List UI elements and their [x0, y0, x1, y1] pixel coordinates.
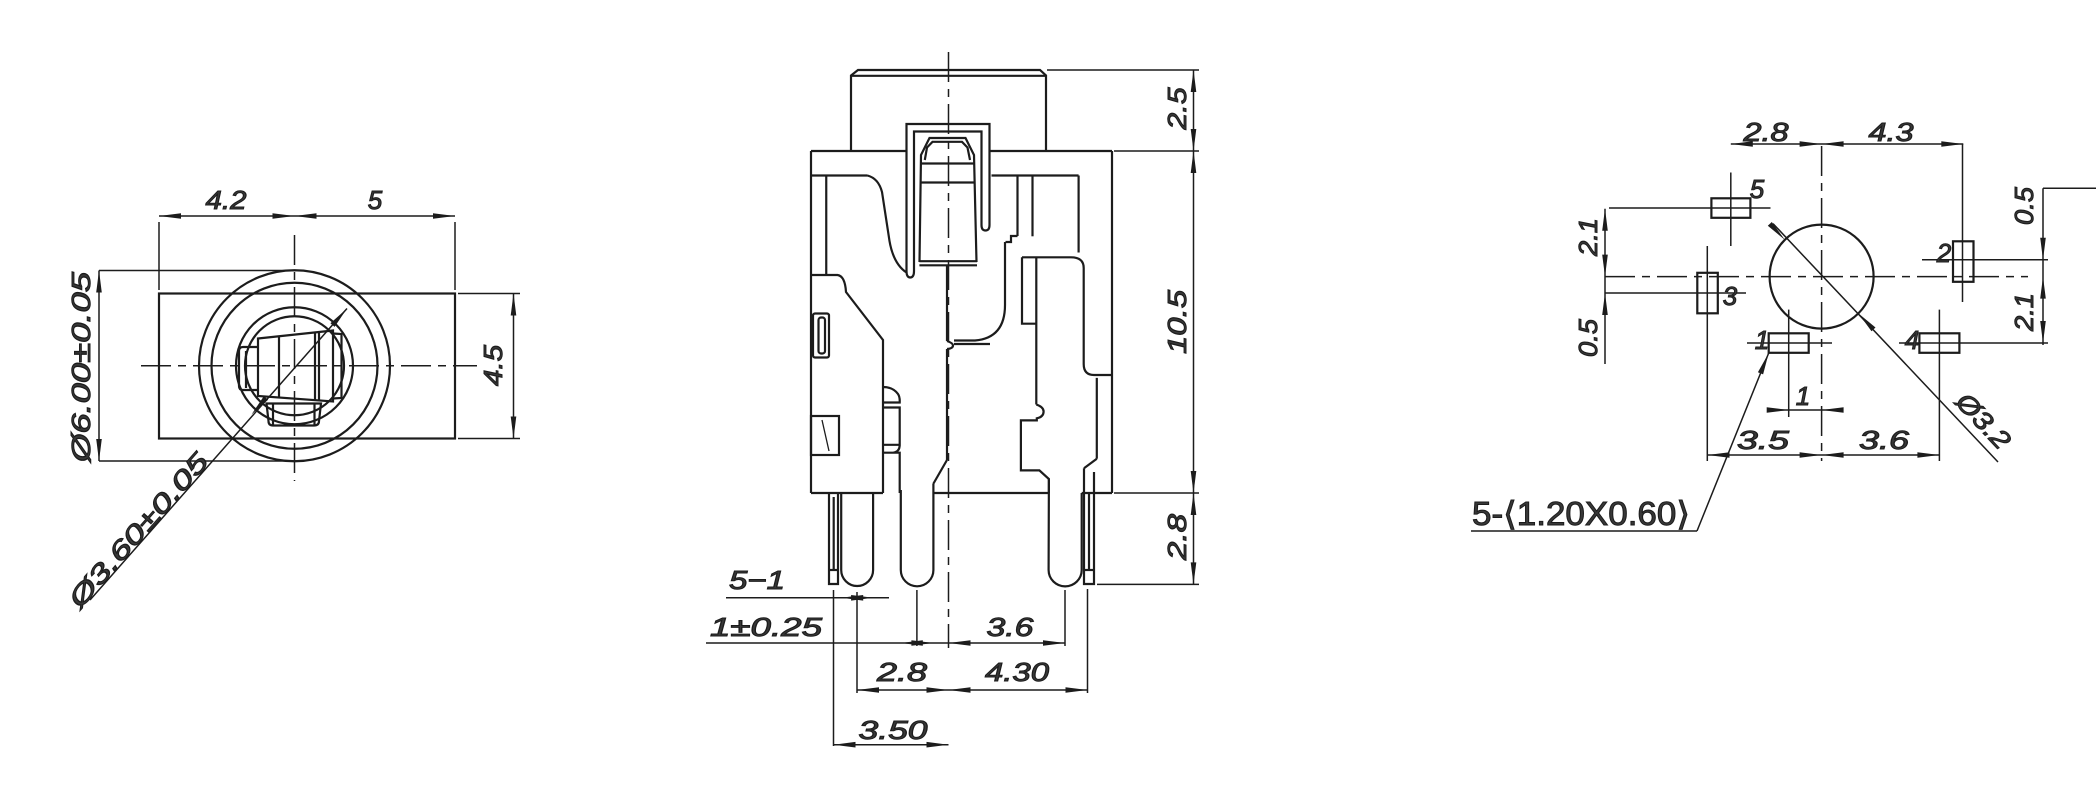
svg-text:4.2: 4.2 — [206, 185, 248, 215]
svg-text:3.5: 3.5 — [1737, 425, 1790, 455]
side view: center contact strip — [946, 265, 948, 341]
side view: body top edge — [811, 150, 907, 152]
pad 1 — [1769, 333, 1809, 353]
dimension 2.5 (top right) — [1047, 69, 1199, 71]
svg-text:2.8: 2.8 — [876, 657, 928, 687]
side view: body right edge — [1111, 151, 1113, 493]
svg-text:3.6: 3.6 — [987, 612, 1035, 642]
dimension 1 (bottom small) — [1770, 409, 1840, 411]
front view: outer bezel circle — [199, 270, 390, 461]
side view: right inner column — [1096, 378, 1098, 459]
side view: left vent slot — [813, 314, 829, 358]
dimension 4.5 (right) — [513, 294, 515, 439]
pcb layout: vertical center line — [1821, 146, 1823, 461]
svg-text:0.5: 0.5 — [2009, 186, 2039, 225]
front view: bottom insertion-detect contact — [267, 404, 322, 426]
side view: contact frame outer — [907, 124, 990, 271]
side view: cavity funnel curve — [868, 176, 907, 273]
svg-text:0.5: 0.5 — [1573, 318, 1603, 357]
pad size label 5-(1.20X0.60) with leader — [1471, 530, 1697, 532]
svg-text:5-⟨1.20X0.60⟩: 5-⟨1.20X0.60⟩ — [1472, 495, 1690, 532]
side view: bushing cap — [851, 70, 1046, 151]
front view: bore circle — [236, 307, 353, 424]
dimension 2.8 / 4.3 (top) — [1731, 143, 1964, 145]
side view: sleeve contact bumps — [883, 387, 900, 493]
svg-text:2.8: 2.8 — [1162, 513, 1192, 561]
side view: contact frame inner — [914, 132, 982, 272]
svg-text:1: 1 — [1796, 381, 1810, 411]
dimension 2.8 (lower right) — [1191, 493, 1197, 515]
svg-text:3.50: 3.50 — [859, 715, 929, 745]
svg-text:4.3: 4.3 — [1869, 117, 1915, 147]
side view: right solder pin — [1049, 479, 1082, 586]
front view: left tab of contact — [239, 347, 258, 390]
dimension dia 3.60 +/- 0.05 (diagonal leader) — [90, 309, 347, 601]
pad 3 — [1697, 273, 1718, 314]
side view: right cavity wall — [1077, 176, 1079, 253]
side view: inner post — [1016, 176, 1018, 236]
dimension 2.8 and 4.30 (bottom) — [857, 689, 1088, 691]
svg-text:1±0.25: 1±0.25 — [710, 612, 823, 642]
dimension 3.5 / 3.6 (bottom) — [1708, 454, 1940, 456]
svg-text:5: 5 — [368, 185, 383, 215]
front view: bezel inner ring — [212, 283, 378, 449]
svg-text:Ø6.00±0.05: Ø6.00±0.05 — [66, 271, 96, 463]
pcb layout: mounting hole circle dia 3.2 — [1770, 225, 1874, 329]
svg-text:2.1: 2.1 — [2009, 293, 2039, 332]
svg-text:2.5: 2.5 — [1162, 87, 1192, 131]
pcb layout: horizontal center line — [1605, 276, 2028, 278]
side view: center tongue contact — [920, 138, 977, 262]
dimension 10.5 (right) — [1191, 151, 1197, 173]
svg-text:5: 5 — [1750, 174, 1765, 204]
side view: solder pin 1 (round, left) — [841, 493, 873, 586]
front view: sleeve contact circle — [245, 316, 344, 415]
side view: cavity floor and fillet — [954, 242, 1005, 341]
svg-text:2.1: 2.1 — [1573, 218, 1603, 257]
extension lines for bottom dimensions — [833, 590, 835, 746]
side view: mounting peg — [811, 416, 839, 455]
dimension 1 +/- 0.25 and 3.6 — [706, 642, 1065, 644]
side view: ring contact — [1022, 257, 1112, 375]
side view: inner ledge lines — [811, 174, 868, 176]
dimension 4.2 / 5 (top) — [159, 215, 455, 217]
svg-text:10.5: 10.5 — [1162, 289, 1192, 354]
side view: left cavity wall and step — [825, 176, 827, 276]
front view: body rectangle — [159, 294, 455, 439]
side view: tongue bottom edges — [919, 260, 977, 262]
side view: vertical center line — [948, 52, 950, 648]
pad 4 — [1919, 333, 1959, 353]
pad 5 — [1711, 198, 1750, 218]
svg-text:3: 3 — [1723, 281, 1738, 311]
side view: frame left hairpin u-turn — [907, 271, 915, 278]
front view: horizontal center line — [141, 365, 477, 367]
side view: body left edge — [810, 151, 812, 493]
side view: body bottom edge — [811, 492, 883, 494]
side view: center solder pin — [901, 484, 934, 586]
side view: flat board-lock pin right — [1084, 468, 1094, 584]
side view: frame right hairpin u-turn — [982, 225, 990, 231]
svg-text:4.5: 4.5 — [478, 344, 508, 386]
dimension 0.5 / 2.1 (right) — [2042, 188, 2044, 345]
dimension 3.50 (bottom) — [834, 744, 949, 746]
side view: flat board-lock pin left — [829, 493, 838, 584]
dimension dia 3.2 (diagonal) — [1773, 224, 1998, 462]
svg-text:5−1: 5−1 — [729, 565, 785, 595]
dimension 2.1 / 0.5 (left) — [1604, 209, 1606, 364]
front view: tip contact (trapezoid with internal lines) — [258, 331, 333, 402]
pad 2 — [1953, 241, 1974, 281]
dimension 5-1 (pin 1 width) — [726, 597, 889, 599]
front view: vertical center line — [294, 235, 296, 481]
svg-text:2.8: 2.8 — [1742, 117, 1789, 147]
svg-text:4.30: 4.30 — [985, 657, 1050, 687]
svg-text:1: 1 — [1755, 325, 1769, 355]
svg-text:3.6: 3.6 — [1859, 425, 1910, 455]
svg-text:2: 2 — [1936, 238, 1952, 268]
dimension dia 6.00 +/- 0.05 (left) — [98, 271, 100, 462]
svg-text:4: 4 — [1905, 325, 1919, 355]
